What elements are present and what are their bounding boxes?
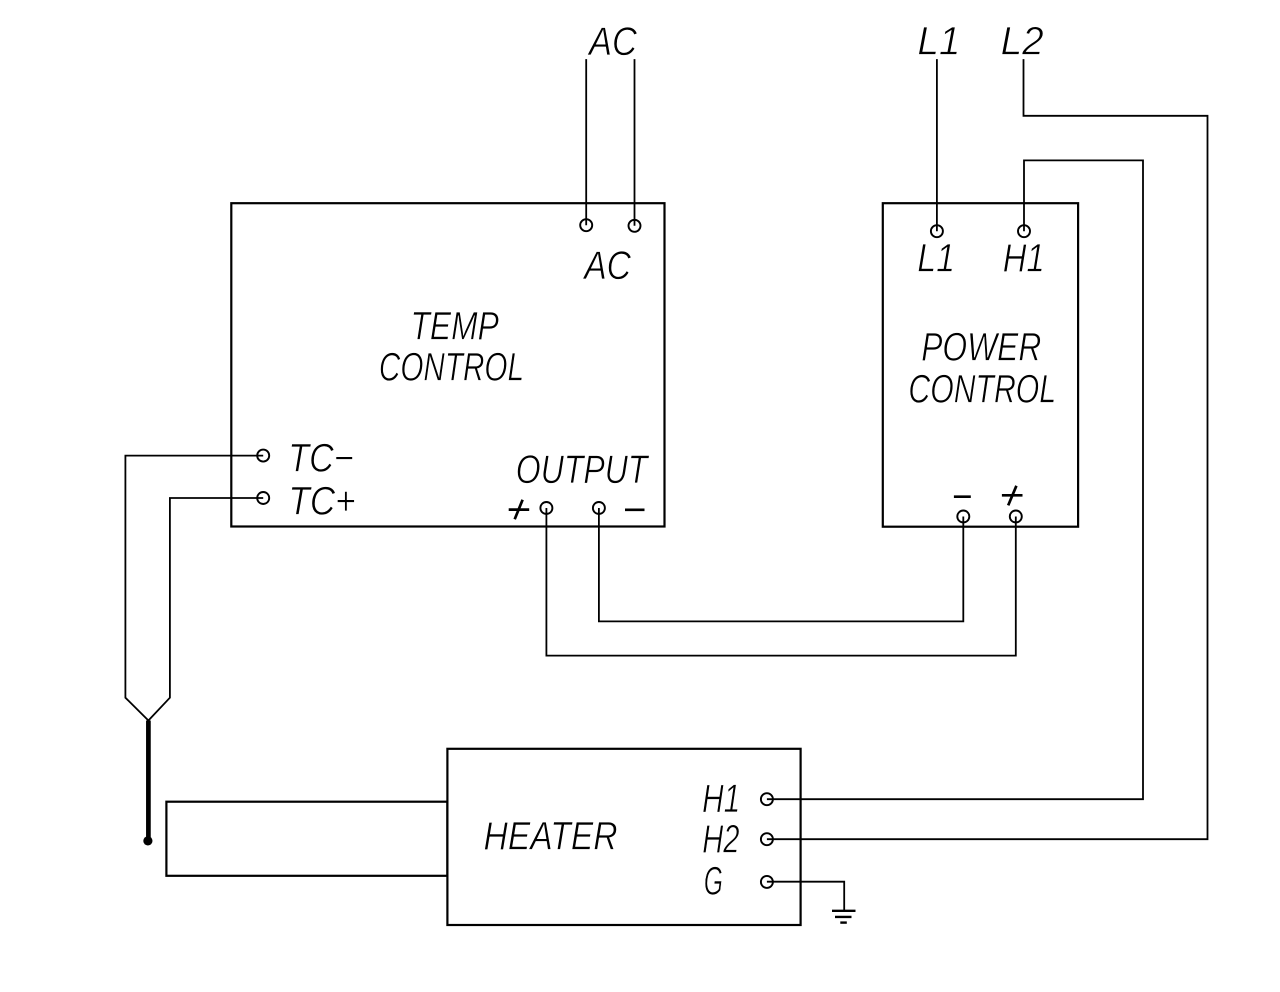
wire heater G to ground [767, 882, 844, 911]
wire output plus to power plus [546, 508, 1015, 656]
wire TC plus to thermocouple [148, 498, 263, 721]
terminal power L1 [931, 225, 943, 237]
power control box U2 [883, 203, 1078, 527]
svg-text:OUTPUT: OUTPUT [516, 448, 650, 492]
svg-text:POWER: POWER [921, 326, 1041, 370]
wire L1 supply [936, 59, 938, 231]
svg-text:CONTROL: CONTROL [379, 346, 524, 390]
svg-text:L1: L1 [917, 20, 960, 64]
svg-text:AC: AC [583, 244, 632, 288]
terminal TC plus [257, 492, 269, 504]
svg-text:AC: AC [587, 20, 638, 64]
wire AC right supply [634, 59, 636, 226]
terminal output minus [593, 502, 605, 514]
label power minus sign [954, 495, 971, 498]
svg-text:L1: L1 [917, 236, 955, 280]
terminal TC minus [257, 450, 269, 462]
svg-text:TC+: TC+ [288, 480, 355, 524]
terminal heater H2 [761, 833, 773, 845]
svg-text:H1: H1 [702, 777, 740, 821]
heater box [447, 749, 800, 925]
label output plus sign [509, 500, 530, 519]
terminal output plus [540, 502, 552, 514]
svg-text:TC−: TC− [288, 437, 353, 481]
label output minus sign [625, 508, 645, 511]
thermocouple probe TC1 [146, 721, 151, 841]
terminal AC left [580, 219, 592, 231]
svg-text:CONTROL: CONTROL [908, 368, 1056, 412]
heater barrel [166, 802, 447, 876]
wire TC minus to thermocouple [125, 456, 263, 721]
terminal power plus [1010, 511, 1022, 523]
ground [832, 911, 856, 923]
svg-text:TEMP: TEMP [411, 305, 500, 349]
label power plus sign [1002, 486, 1023, 506]
wire output minus to power minus [599, 508, 963, 621]
wire power H1 to heater H1 [767, 160, 1143, 799]
svg-text:H2: H2 [702, 818, 739, 862]
terminal heater H1 [761, 793, 773, 805]
svg-text:H1: H1 [1003, 236, 1045, 280]
svg-text:L2: L2 [1001, 20, 1044, 64]
terminal AC right [629, 220, 641, 232]
temp control box U1 [231, 203, 664, 526]
terminal heater G [761, 876, 773, 888]
wire AC left supply [585, 59, 587, 225]
terminal power minus [957, 511, 969, 523]
svg-text:HEATER: HEATER [484, 814, 618, 858]
terminal power H1 [1018, 225, 1030, 237]
svg-text:G: G [704, 859, 723, 903]
wire L2 to heater H2 [767, 59, 1208, 839]
